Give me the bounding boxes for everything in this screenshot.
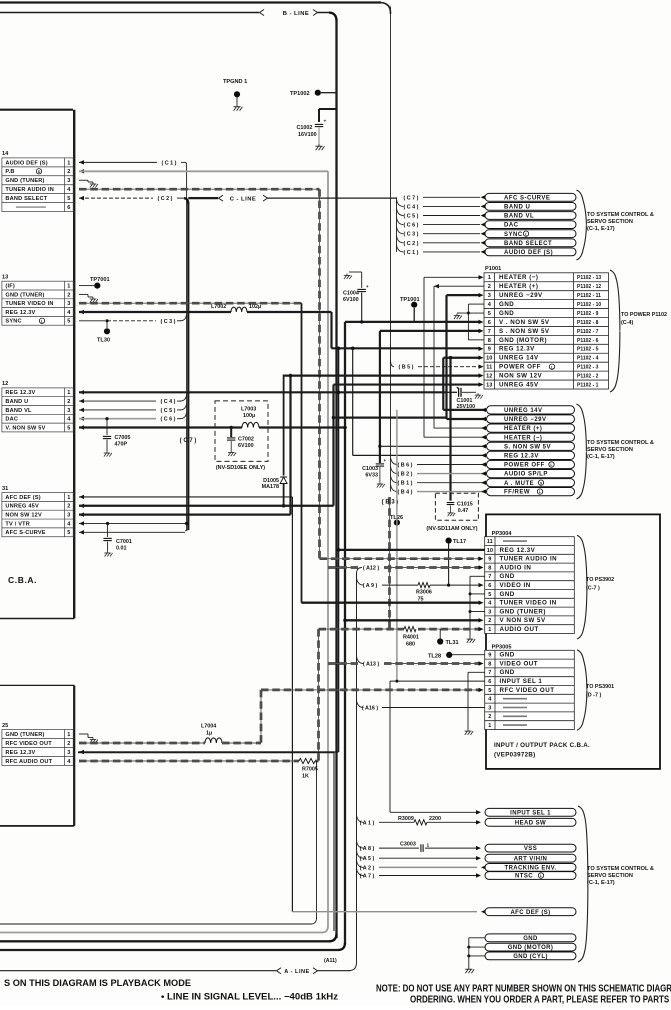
svg-text:C7001: C7001 [116,539,132,545]
svg-text:TO SYSTEM CONTROL &: TO SYSTEM CONTROL & [587,440,654,446]
svg-text:HEATER (+): HEATER (+) [504,426,542,432]
wire AUDIO IN shielded with flag A12 [328,566,358,569]
wire P1001 pin12 NON SW 12V thick [284,375,479,377]
svg-text:GND: GND [500,669,515,676]
svg-text:1: 1 [488,275,491,281]
wire S NON SW 5V to pill [378,445,381,448]
svg-text:TL28: TL28 [428,654,441,660]
svg-text:2: 2 [67,169,70,175]
svg-text:HEATER (−): HEATER (−) [504,435,542,441]
wire B-LINE top [0,12,259,14]
svg-text:S. NON SW 5V: S. NON SW 5V [504,444,551,450]
svg-text:FF/REW: FF/REW [504,490,530,496]
wire V NON SW 5V vertical main [344,322,346,944]
bracket C pills [577,190,587,260]
wire TL28 to pin9 GND [452,654,485,656]
svg-text:R7005: R7005 [302,767,318,773]
wire RFC VIDEO OUT shielded to pin5 [261,689,480,692]
svg-text:BAND VL: BAND VL [504,214,534,220]
svg-text:( C 2 ): ( C 2 ) [404,241,419,247]
wire BAND VL to flag C5 [79,408,84,412]
svg-text:TUNER AUDIO IN: TUNER AUDIO IN [5,187,54,193]
wire P1001 pin6 arrow [479,320,484,324]
svg-text:3: 3 [488,705,491,711]
svg-text:(NV-SD11AM ONLY): (NV-SD11AM ONLY) [426,526,477,532]
svg-text:P1102 - 8: P1102 - 8 [577,320,599,326]
svg-text:3: 3 [67,178,70,184]
svg-text:TO SYSTEM CONTROL &: TO SYSTEM CONTROL & [587,212,654,218]
flag C1 right [397,245,404,252]
svg-text:TP1002: TP1002 [290,91,310,97]
svg-text:C7005: C7005 [115,435,131,441]
svg-text:AUDIO SP/LP: AUDIO SP/LP [504,472,548,478]
svg-text:UNREG 14V: UNREG 14V [504,408,543,414]
svg-text:P1102 - 9: P1102 - 9 [577,311,599,317]
svg-text:(C-1, E-17): (C-1, E-17) [587,454,615,460]
wire TUNER AUDIO IN shielded [79,188,320,191]
svg-text:TO POWER P1102: TO POWER P1102 [621,312,667,318]
svg-text:2200: 2200 [429,816,441,822]
pill BAND VL [485,212,576,220]
svg-text:( A16 ): ( A16 ) [362,706,378,712]
svg-text:NTSC: NTSC [515,874,533,880]
svg-text:REG 12.3V: REG 12.3V [5,750,35,756]
svg-text:5: 5 [488,311,491,317]
junction C2 / C-LINE [184,198,188,204]
P.B circled-D symbol [36,169,41,174]
svg-text:0.47: 0.47 [458,508,469,514]
POWER OFF circled-L in P1001 [549,364,554,369]
test point TL30 [106,321,108,328]
flag (A 1) and R3009 to HEAD SW [357,815,364,822]
diode D1005 MA178 branch [283,375,285,476]
flag C6 right [397,218,404,225]
svg-text:SYNC: SYNC [5,319,21,325]
svg-text:6V33: 6V33 [365,473,378,479]
svg-text:HEATER (−): HEATER (−) [499,274,538,281]
svg-text:( A 7 ): ( A 7 ) [360,874,375,880]
wire P.B gray [79,169,84,173]
svg-text:10: 10 [486,356,492,362]
wire TUNER AUDIO IN shielded to pin9 [320,557,481,560]
svg-text:102µ: 102µ [249,304,261,310]
svg-text:3: 3 [488,609,491,615]
svg-text:TO PS3902: TO PS3902 [586,577,614,583]
svg-text:GND: GND [499,301,514,308]
svg-text:2: 2 [67,292,70,298]
pill GND (CYL) [485,952,576,960]
svg-text:10: 10 [487,548,493,554]
svg-text:1K: 1K [302,774,309,780]
svg-text:( A 2 ): ( A 2 ) [360,865,375,871]
wire flag to pill [417,491,485,493]
wire REG to PP3004 pin10 thick [339,549,570,551]
pill TRACKING ENV. [485,864,576,872]
svg-text:D: D [38,170,41,174]
svg-text:2: 2 [67,399,70,405]
svg-text:TP7001: TP7001 [90,277,110,283]
svg-text:TO PS3901: TO PS3901 [586,684,614,690]
capacitor C1004 6V100 branch [349,271,362,273]
svg-text:( C 7 ): ( C 7 ) [180,438,197,444]
ground at TPGND 1 [233,105,242,111]
wire B bundle vertical from top [390,7,392,492]
svg-text:31: 31 [2,486,8,492]
flag ( B 6 ) [391,458,398,465]
svg-text:(NV-SD10EE ONLY): (NV-SD10EE ONLY) [216,465,265,471]
svg-text:NON SW 12V: NON SW 12V [499,373,543,380]
svg-text:1: 1 [67,390,70,396]
svg-text:A . MUTE: A . MUTE [504,481,534,487]
SYNC circled-L symbol [39,318,44,323]
svg-text:11: 11 [487,539,493,545]
pill BAND SELECT [485,239,576,247]
wire NON SW 12V thick from block31 [79,512,84,516]
svg-text:AFC S-CURVE: AFC S-CURVE [504,195,550,201]
svg-text:P1102 - 13: P1102 - 13 [577,275,601,281]
wire mid return thin via 334 [78,751,334,753]
svg-text:7: 7 [488,670,491,676]
resistor R4001 680 [404,627,416,632]
wire stub to C1002 [319,108,337,110]
pill AFC DEF (S) [485,908,576,916]
svg-text:DAC: DAC [5,417,18,423]
wire B bundle hatched segment (B 3) [388,497,391,629]
svg-text:(VEP03972B): (VEP03972B) [494,752,535,759]
wire C-LINE vertical bus down left [187,202,189,530]
svg-text:TL17: TL17 [453,539,466,545]
svg-text:8: 8 [488,565,491,571]
svg-text:AUDIO OUT: AUDIO OUT [500,626,539,633]
pill SYNC [485,230,576,238]
flag (A 8) and C3003 to VSS [357,841,364,848]
svg-text:5: 5 [67,530,70,536]
GND pills cluster [469,937,485,939]
svg-text:( C 4 ): ( C 4 ) [161,399,176,405]
wire INPUT SEL 1 to pill [390,811,477,813]
svg-text:BAND SELECT: BAND SELECT [504,241,552,247]
wire A-LINE bottom [0,970,276,972]
svg-text:AUDIO DEF (S): AUDIO DEF (S) [504,250,553,256]
svg-text:UNREG −29V: UNREG −29V [504,417,547,423]
svg-text:L7003: L7003 [241,407,256,413]
svg-text:GND: GND [500,573,515,580]
svg-text:( C 6 ): ( C 6 ) [404,223,419,229]
svg-text:9: 9 [488,347,491,353]
pill GND [485,934,576,942]
flag C2 right [397,236,404,243]
svg-text:NOTE: DO NOT USE ANY PART NUMB: NOTE: DO NOT USE ANY PART NUMBER SHOWN O… [376,984,671,995]
wire SYNC to flag C3 [79,320,105,322]
svg-text:7: 7 [488,329,491,335]
wire REG 12.3V vertical bus [338,348,340,752]
svg-text:VIDEO OUT: VIDEO OUT [500,660,539,667]
svg-text:( A 1 ): ( A 1 ) [360,820,375,826]
svg-text:R4001: R4001 [403,635,419,641]
svg-text:5: 5 [67,425,70,431]
svg-text:INPUT SEL 1: INPUT SEL 1 [510,810,551,816]
test point TL31 [437,638,443,644]
svg-text:AUDIO DEF (S): AUDIO DEF (S) [5,160,47,166]
wire UNREG 45V vertical [332,385,334,506]
svg-text:2: 2 [67,741,70,747]
wire P1001 pin10 UNREG 14V thick [443,357,479,359]
svg-text:P1102 - 5: P1102 - 5 [577,347,599,353]
svg-text:( C 1 ): ( C 1 ) [404,250,419,256]
wire REG corner down to P1001 pin9 [330,312,332,348]
ground PP3005 [465,729,474,735]
wire TV/VTR [79,521,84,525]
wire audio shielded vertical to R7005 [317,629,320,761]
svg-text:TL31: TL31 [446,640,459,646]
svg-text:BAND SELECT: BAND SELECT [5,196,47,202]
svg-text:5: 5 [488,592,491,598]
svg-text:( B 2 ): ( B 2 ) [398,472,413,478]
wire to pill SYNC [423,233,480,235]
svg-text:V . NON SW 5V: V . NON SW 5V [499,319,550,326]
svg-text:P1102 - 10: P1102 - 10 [577,302,601,308]
ground at C1001 [475,393,483,399]
svg-text:BAND VL: BAND VL [5,408,32,414]
svg-text:GND: GND [500,591,515,598]
svg-text:C - LINE: C - LINE [230,197,257,203]
pill HEATER (+) [487,424,575,432]
wire top bus to B-flag bundle [0,1,381,3]
flag (A 7) to NTSC [357,869,364,876]
wires P1001 GND pins 4,5,8 cluster [468,303,484,305]
ground below C1002 [315,144,324,150]
svg-text:UNREG 45V: UNREG 45V [5,504,39,510]
pill AUDIO SP/LP [487,470,575,478]
svg-text:( B 1 ): ( B 1 ) [398,481,413,487]
svg-text:VSS: VSS [524,846,537,852]
svg-text:1: 1 [67,284,70,290]
svg-text:9: 9 [488,653,491,659]
wire V NON SW 5V to P1001 pin6 [345,321,479,323]
svg-text:( B 5 ): ( B 5 ) [399,365,414,371]
svg-text:( B 4 ): ( B 4 ) [398,490,413,496]
svg-text:P1102 - 2: P1102 - 2 [577,374,599,380]
svg-text:AUDIO IN: AUDIO IN [500,564,532,571]
svg-text:D1005: D1005 [263,478,279,484]
svg-text:6: 6 [488,679,491,685]
pill GND (MOTOR) [485,943,576,951]
wire flag to pill [417,464,485,466]
svg-text:5: 5 [67,196,70,202]
wire PP3004 GND pins 7,5,3 cluster [470,575,485,577]
dashed box NV-SD11AM with C1015 [435,493,478,520]
svg-text:( B 6 ): ( B 6 ) [398,463,413,469]
wire P1001 pin13 UNREG 45V thick [334,383,480,385]
resistor R7005 1K [299,758,315,763]
svg-text:0.01: 0.01 [116,546,127,552]
svg-text:S . NON SW 5V: S . NON SW 5V [499,328,550,335]
bracket bottom group [578,806,588,962]
svg-text:UNREG −29V: UNREG −29V [499,292,543,299]
wire GND TUNER block25 to ground [79,733,88,735]
svg-text:AFC DEF (S): AFC DEF (S) [510,910,550,916]
flag C5 right [397,209,404,216]
svg-text:6: 6 [67,205,70,211]
wire VIDEO OUT shielded with flag A13 [328,662,358,665]
bracket P1001 [610,270,620,392]
ground GND pills [465,967,474,973]
svg-text:C1001: C1001 [457,398,473,404]
svg-text:1: 1 [67,160,70,166]
svg-text:1: 1 [427,843,430,849]
svg-text:P1102 - 6: P1102 - 6 [577,338,599,344]
pill ART V/H/N [485,854,576,862]
svg-text:8: 8 [488,661,491,667]
pill DAC [485,221,576,229]
pill NTSC [485,872,576,880]
svg-text:INPUT / OUTPUT PACK C.B.A.: INPUT / OUTPUT PACK C.B.A. [494,742,590,749]
svg-text:REG 12.3V: REG 12.3V [5,310,35,316]
wire RFC AUDIO OUT shielded with R7005 [79,760,299,763]
wire GND(TUNER) block13 to ground [79,293,88,295]
wire RFC VIDEO OUT shielded with L7004 [79,742,205,745]
wire C-line bundle vertical left [186,164,188,530]
ground at C1003 [377,482,385,488]
capacitor C7002 6V100 [230,426,233,429]
svg-text:1µ: 1µ [206,731,212,737]
wire UNREG -29V cross link [332,416,336,420]
svg-text:1: 1 [488,627,491,633]
pill AFC S-CURVE [485,193,576,201]
wire C-LINE label segment [188,197,218,199]
wire flag to pill [417,473,485,475]
svg-text:6: 6 [488,320,491,326]
wire to pill BAND U [423,205,480,207]
svg-text:100µ: 100µ [243,413,255,419]
svg-text:3: 3 [67,408,70,414]
svg-text:GND: GND [500,652,515,659]
svg-text:12: 12 [486,374,492,380]
svg-text:13: 13 [2,275,8,281]
svg-text:P1102 - 11: P1102 - 11 [577,293,601,299]
svg-text:NON SW 12V: NON SW 12V [5,513,42,519]
svg-text:C.B.A.: C.B.A. [8,575,37,585]
svg-text:6: 6 [488,583,491,589]
svg-text:3: 3 [67,301,70,307]
svg-text:6V100: 6V100 [343,297,359,303]
svg-text:( A 8 ): ( A 8 ) [360,846,375,852]
svg-text:TUNER VIDEO IN: TUNER VIDEO IN [5,301,53,307]
svg-text:REG 12.3V: REG 12.3V [500,547,536,554]
svg-text:P1001: P1001 [485,266,501,272]
wire C1015 tap vertical [449,356,453,360]
svg-text:HEAD SW: HEAD SW [515,820,546,826]
wire REG 12.3V block25 [79,750,84,754]
svg-text:B - LINE: B - LINE [283,11,310,17]
svg-text:+: + [324,120,327,125]
svg-text:TUNER AUDIO IN: TUNER AUDIO IN [500,556,558,563]
svg-text:C7002: C7002 [238,437,254,443]
svg-text:( C 4 ): ( C 4 ) [404,204,419,210]
wire TL31 stub to audio line [439,629,441,638]
pill FF/REW [487,488,575,496]
svg-text:470P: 470P [115,442,128,448]
svg-text:MA178: MA178 [262,484,279,490]
svg-text:GND (CYL): GND (CYL) [513,954,548,960]
svg-text:13: 13 [486,382,492,388]
svg-text:SERVO SECTION: SERVO SECTION [587,447,633,453]
svg-text:TO SYSTEM CONTROL &: TO SYSTEM CONTROL & [587,866,654,872]
wire REG 12.3V from block12 [79,390,84,394]
pill BAND U [485,203,576,211]
svg-text:ORDERING. WHEN YOU ORDER A P: ORDERING. WHEN YOU ORDER A PART, PLEASE … [410,995,671,1006]
svg-text:INPUT SEL 1: INPUT SEL 1 [500,678,543,685]
wire REG 12.3V to pill [351,347,355,351]
capacitor C1015 0.47 [447,503,455,505]
test point TL17 [446,538,452,544]
wire to pill BAND VL [423,215,480,217]
svg-text:( A12 ): ( A12 ) [363,566,379,572]
flag (A 9) and wire to pin6 VIDEO IN [357,578,364,585]
C.B.A. box lower (left) [0,684,74,686]
wire P1001 pin2 HEATER+ [434,284,439,288]
svg-text:( C 7 ): ( C 7 ) [404,195,419,201]
svg-text:( C 6 ): ( C 6 ) [161,417,176,423]
svg-text:SERVO SECTION: SERVO SECTION [587,873,633,879]
flag (A16) and wire to pin3 [357,701,364,708]
svg-text:7: 7 [488,574,491,580]
svg-text:( C 1 ): ( C 1 ) [162,160,177,166]
svg-text:(C-1, E-17): (C-1, E-17) [587,880,615,886]
svg-text:( A13 ): ( A13 ) [363,662,379,668]
svg-text:( A 5 ): ( A 5 ) [360,856,375,862]
wire to pill AUDIO DEF (S) [423,251,480,253]
svg-text:ART V/H/N: ART V/H/N [514,856,548,862]
capacitor C1001 25V100 [446,391,457,393]
svg-text:C1015: C1015 [457,502,473,508]
svg-text:3: 3 [488,293,491,299]
wire V NON SW 5V thick from block12 [79,425,84,429]
wire GND (TUNER) pin3 to ground [79,179,88,181]
svg-text:POWER OFF: POWER OFF [504,463,545,469]
flag ( B 4 ) [391,485,398,492]
svg-text:L7002: L7002 [211,304,226,310]
svg-text:GND (TUNER): GND (TUNER) [5,178,44,184]
flag (A 2) to TRACKING ENV gray [357,860,364,867]
svg-text:C1003: C1003 [362,466,378,472]
ground PP3004 GND cluster [467,637,476,643]
wire V NON SW 5V to pin2 thick [345,619,480,621]
diode D1005 symbol [280,477,287,484]
wire TL17 stub [448,544,450,586]
svg-text:( C 3 ): ( C 3 ) [161,319,176,325]
svg-text:P1102 - 1: P1102 - 1 [577,382,599,388]
wire C bundle vertical right [396,197,398,252]
svg-text:R3006: R3006 [416,590,432,596]
svg-text:( C 5 ): ( C 5 ) [161,408,176,414]
wire TUNER VIDEO IN vertical [300,302,302,304]
wire INPUT SEL 1 from pin6 [390,680,485,682]
svg-text:2: 2 [67,504,70,510]
svg-text:PP3004: PP3004 [492,531,513,537]
svg-text:P1102 - 3: P1102 - 3 [577,365,599,371]
svg-text:1: 1 [488,723,491,729]
wire BAND U to flag C4 [79,399,84,403]
svg-text:GND (MOTOR): GND (MOTOR) [508,945,554,951]
bracket group2 pills [577,404,587,499]
ground block13 pin2 [90,297,98,303]
resistor R3006 75 [418,583,430,588]
svg-text:( A 9 ): ( A 9 ) [363,583,378,589]
wire UNREG 45V thick from block31 [79,504,84,508]
wire S NON SW vertical to C1003 [379,331,381,463]
svg-text:8: 8 [488,338,491,344]
